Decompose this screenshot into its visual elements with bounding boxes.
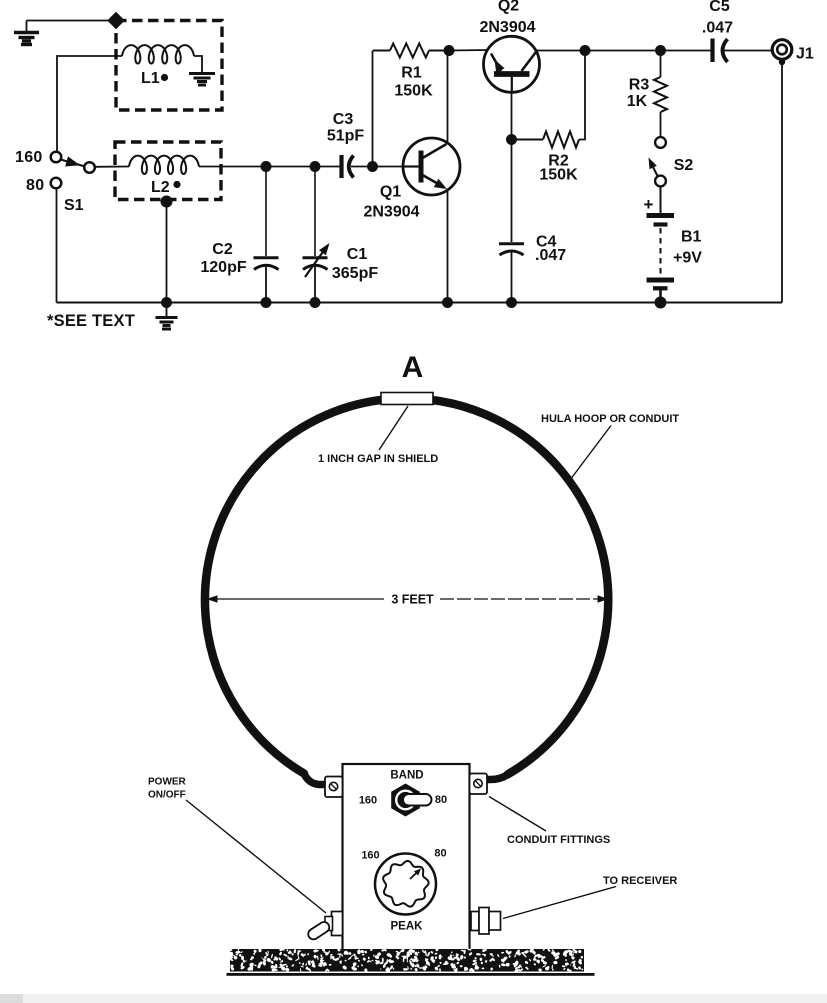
svg-text:L1: L1 (141, 70, 160, 87)
svg-text:365pF: 365pF (332, 265, 378, 282)
label L1* (141, 70, 168, 87)
label 150K (R1) (394, 83, 433, 100)
svg-text:+9V: +9V (673, 250, 702, 267)
label S2 (674, 157, 694, 174)
battery B1 plate short top (654, 222, 668, 226)
svg-text:1K: 1K (627, 93, 648, 110)
switch S1 contact 160 (51, 152, 62, 163)
battery B1 top lead (660, 187, 662, 214)
dimension line left (207, 595, 385, 603)
switch S1 contact 80 (51, 178, 62, 189)
wire R2 to top rail (579, 51, 585, 140)
switch S2 lever (649, 158, 658, 177)
battery B1 plate long bottom (647, 278, 675, 283)
node after C3 (367, 161, 378, 172)
receiver connector (471, 908, 501, 935)
capacitor C2 stem bottom (265, 266, 267, 303)
svg-text:C5: C5 (709, 0, 730, 15)
node top rail at R3 (655, 45, 666, 56)
label + of B1 (644, 195, 654, 214)
wire C5 to J1 (724, 50, 772, 52)
svg-text:A: A (402, 351, 424, 384)
label HULA HOOP OR CONDUIT (541, 413, 679, 425)
label R1 (401, 65, 422, 82)
node battery to rail (655, 297, 667, 309)
svg-text:L2: L2 (151, 179, 170, 196)
hoop end stub right (488, 774, 508, 779)
label .047 (C4) (535, 247, 566, 264)
svg-text:*SEE TEXT: *SEE TEXT (47, 312, 135, 330)
scrollbar track (0, 994, 827, 1003)
label 2N3904 (Q2) (479, 19, 535, 36)
svg-text:Q2: Q2 (498, 0, 519, 15)
label Q1 (380, 184, 401, 201)
capacitor C3 (342, 155, 354, 178)
label 80 (toggle) (435, 794, 447, 806)
resistor R2 (543, 132, 579, 148)
label J1 (796, 46, 814, 63)
svg-text:B1: B1 (681, 229, 702, 246)
svg-text:160: 160 (361, 850, 379, 862)
wire Q1 collector (447, 51, 449, 144)
wire S1-80 down to rail (56, 189, 58, 303)
connector J1 (772, 40, 792, 65)
node Q2 base / R2 / C4 (506, 134, 517, 145)
wire Q2 base down (511, 92, 513, 140)
svg-text:C3: C3 (333, 111, 354, 128)
wire bottom rail (57, 302, 783, 304)
wire L1 to internal ground (194, 56, 202, 72)
label 51pF (327, 128, 365, 145)
base bar underline (227, 973, 595, 976)
label 1 INCH GAP IN SHIELD (318, 453, 438, 465)
svg-text:S1: S1 (64, 197, 84, 214)
svg-text:ON/OFF: ON/OFF (148, 790, 186, 801)
node rail Q1 emitter (442, 297, 453, 308)
svg-text:.047: .047 (702, 20, 733, 37)
battery B1 plate long top (647, 213, 675, 218)
label 365pF (332, 265, 378, 282)
conduit fitting left (325, 777, 343, 798)
wire main L2 to C3 (199, 166, 341, 168)
label 2N3904 (Q1) (363, 204, 419, 221)
label POWER ON/OFF (148, 777, 187, 801)
resistor R3 (654, 77, 667, 112)
scrollbar thumb (0, 994, 23, 1003)
tuner box (343, 764, 470, 951)
label B1 (681, 229, 702, 246)
node C2 top (261, 161, 272, 172)
svg-text:+: + (644, 195, 654, 214)
label 3 FEET (391, 593, 434, 607)
wire R1 node to Q2 (449, 49, 488, 52)
battery B1 dashed body (660, 228, 662, 275)
svg-text:1 INCH GAP IN SHIELD: 1 INCH GAP IN SHIELD (318, 453, 438, 465)
svg-text:51pF: 51pF (327, 128, 365, 145)
label Q2 (498, 0, 519, 15)
leader line power (186, 800, 326, 913)
resistor R1 (373, 44, 444, 58)
svg-text:S2: S2 (674, 157, 694, 174)
svg-text:J1: J1 (796, 46, 814, 63)
svg-text:150K: 150K (539, 167, 578, 184)
svg-text:C1: C1 (347, 246, 368, 263)
node rail C4 (506, 297, 517, 308)
label C5 (709, 0, 730, 15)
label C3 (333, 111, 354, 128)
hula hoop loop (205, 398, 608, 774)
svg-text:PEAK: PEAK (391, 921, 424, 933)
capacitor C5 (713, 39, 728, 63)
wire J1 down right side (781, 62, 783, 303)
capacitor C4 stem bottom (511, 251, 513, 303)
transistor Q2 (484, 36, 540, 92)
svg-text:120pF: 120pF (200, 259, 246, 276)
dashed enclosure for L1 (116, 21, 222, 111)
svg-text:C2: C2 (212, 241, 233, 258)
battery B1 bottom stem (659, 290, 662, 300)
capacitor C4 stem top (511, 140, 513, 243)
svg-text:3 FEET: 3 FEET (391, 593, 434, 607)
svg-text:R1: R1 (401, 65, 422, 82)
capacitor C2 stem top (265, 167, 267, 257)
dimension line right (440, 595, 609, 603)
label 120pF (200, 259, 246, 276)
switch S2 contact bottom (655, 176, 666, 187)
resistor R3 lead top (660, 51, 662, 78)
label L2* (151, 179, 181, 196)
tuning knob PEAK (375, 854, 436, 915)
node rail C2 (261, 297, 272, 308)
power switch (306, 912, 342, 942)
label A (402, 351, 424, 384)
switch S1 wiper arrow (61, 156, 86, 166)
label TO RECEIVER (603, 875, 677, 887)
capacitor C2 (254, 258, 279, 270)
conduit fitting right (470, 774, 488, 795)
switch S1 common contact (84, 162, 95, 173)
node top rail at R2 (580, 45, 591, 56)
label C4 (536, 234, 557, 251)
label PEAK (391, 921, 424, 933)
label C2 (212, 241, 233, 258)
toggle switch BAND (391, 784, 431, 817)
label 160 (knob) (361, 850, 379, 862)
wire from L1 down to S1 (57, 56, 122, 151)
svg-text:80: 80 (434, 848, 446, 860)
node junction at L1 box corner (107, 12, 125, 30)
leader line hula hoop (572, 426, 612, 479)
battery B1 plate short bottom (653, 286, 668, 290)
svg-text:CONDUIT FITTINGS: CONDUIT FITTINGS (507, 834, 610, 846)
label 1K (627, 93, 648, 110)
leader line gap (379, 406, 408, 450)
base bar (speckled ground) (228, 947, 584, 973)
svg-text:BAND: BAND (390, 770, 423, 782)
switch S2 contact top (655, 137, 666, 148)
label CONDUIT FITTINGS (507, 834, 610, 846)
capacitor C1 arrow (305, 243, 330, 277)
label 160 (15, 149, 43, 166)
label R3 (629, 77, 650, 94)
gap in shield (381, 393, 433, 405)
label 80 (26, 177, 44, 194)
resistor R2 lead (512, 139, 544, 141)
dashed enclosure for L2 (115, 142, 221, 200)
capacitor C1 stem bottom (314, 266, 316, 303)
ground in L1 box (189, 74, 215, 86)
resistor R3 lead bottom (660, 112, 662, 137)
svg-text:2N3904: 2N3904 (363, 204, 419, 221)
wire Q2 right to C5 (536, 50, 713, 52)
transistor Q1 (403, 138, 460, 195)
node R1 right (444, 45, 455, 56)
label BAND (390, 770, 423, 782)
wire main from S1 common to L2 (95, 166, 129, 168)
node L2 tap (161, 196, 173, 208)
label S1 (64, 197, 84, 214)
capacitor C1 stem top (314, 167, 316, 257)
svg-text:POWER: POWER (148, 777, 187, 788)
node C1 top (310, 161, 321, 172)
svg-text:R3: R3 (629, 77, 650, 94)
ground at bottom rail (156, 303, 178, 330)
svg-text:80: 80 (435, 794, 447, 806)
label SEE TEXT (47, 312, 135, 330)
node rail C1 (310, 297, 321, 308)
inductor L2 (129, 156, 199, 174)
svg-text:150K: 150K (394, 83, 433, 100)
node rail L2 tap (161, 297, 172, 308)
leader line receiver (503, 887, 616, 919)
wire Q1 emitter (447, 190, 449, 303)
svg-text:Q1: Q1 (380, 184, 401, 201)
wire C3 to Q1 (351, 166, 404, 168)
label +9V (673, 250, 702, 267)
label 80 (knob) (434, 848, 446, 860)
ground G-topleft (14, 21, 39, 45)
label 160 (toggle) (359, 795, 377, 807)
svg-text:HULA HOOP OR CONDUIT: HULA HOOP OR CONDUIT (541, 413, 679, 425)
label R2 (548, 153, 569, 170)
svg-text:TO RECEIVER: TO RECEIVER (603, 875, 677, 887)
svg-text:.047: .047 (535, 247, 566, 264)
label C1 (347, 246, 368, 263)
capacitor C4 (499, 244, 524, 255)
svg-text:2N3904: 2N3904 (479, 19, 535, 36)
svg-text:160: 160 (15, 149, 43, 166)
svg-text:160: 160 (359, 795, 377, 807)
label 150K (R2) (539, 167, 578, 184)
wire node to R1 (372, 51, 374, 167)
label .047 (C5) (702, 20, 733, 37)
leader line conduit (489, 797, 546, 832)
svg-text:80: 80 (26, 177, 44, 194)
wire top-left from ground to node at L1 box corner (27, 20, 117, 22)
wire L2 tap to rail (166, 202, 168, 303)
inductor L1 (122, 45, 194, 63)
hoop end stub left (304, 774, 333, 785)
capacitor C1 (303, 258, 328, 270)
